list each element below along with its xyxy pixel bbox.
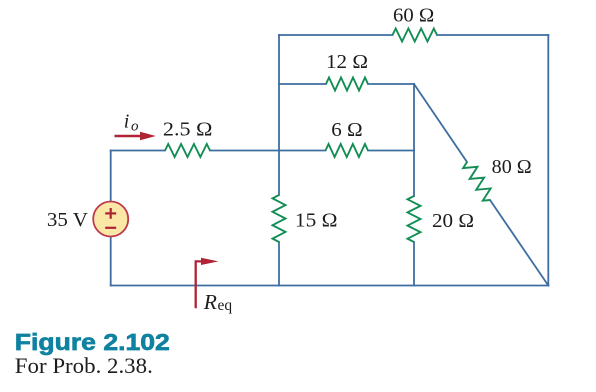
wire right rail <box>547 35 549 286</box>
svg-text:6 Ω: 6 Ω <box>331 119 362 141</box>
svg-text:i: i <box>124 111 130 133</box>
wire top branch left segment <box>279 34 393 36</box>
resistor 80 ohm <box>463 162 491 201</box>
wire middle branch right segment <box>368 150 414 152</box>
resistor 12 ohm <box>326 78 368 91</box>
svg-text:eq: eq <box>218 297 233 314</box>
wire diagonal upper segment <box>414 84 467 162</box>
wire left inner rail upper <box>278 35 280 195</box>
svg-text:15 Ω: 15 Ω <box>295 210 338 232</box>
resistor 15 ohm <box>273 195 286 242</box>
svg-text:80 Ω: 80 Ω <box>492 156 532 178</box>
wire source top lead <box>110 151 112 202</box>
source plus sign <box>105 208 116 219</box>
svg-text:20 Ω: 20 Ω <box>432 210 474 232</box>
svg-text:2.5 Ω: 2.5 Ω <box>163 118 213 140</box>
svg-text:Figure 2.102: Figure 2.102 <box>15 329 170 355</box>
current arrow i_o <box>115 132 156 140</box>
wire bottom branch <box>111 285 549 287</box>
voltage source 35V circle <box>93 202 128 237</box>
R_eq arrow <box>196 258 219 309</box>
wire diagonal lower segment <box>490 200 548 286</box>
svg-text:12 Ω: 12 Ω <box>326 51 368 73</box>
wire source bottom lead <box>110 237 112 286</box>
svg-text:For Prob. 2.38.: For Prob. 2.38. <box>15 353 153 378</box>
svg-text:35 V: 35 V <box>47 209 89 231</box>
svg-text:o: o <box>131 118 139 134</box>
resistor 2.5 ohm <box>165 144 210 157</box>
wire 12-ohm branch right segment <box>368 83 414 85</box>
svg-text:R: R <box>203 290 217 314</box>
wire 20-ohm rail lower <box>413 242 415 286</box>
resistor 60 ohm <box>393 29 438 42</box>
wire 20-ohm rail upper <box>413 84 415 196</box>
wire 12-ohm branch left segment <box>279 83 326 85</box>
resistor 20 ohm <box>408 196 421 242</box>
resistor 6 ohm <box>326 144 369 157</box>
wire left inner rail lower <box>278 242 280 286</box>
source minus sign <box>105 227 116 229</box>
wire middle branch center segment <box>210 150 326 152</box>
svg-text:60 Ω: 60 Ω <box>393 5 434 27</box>
wire top branch right segment <box>437 34 548 36</box>
wire middle branch left segment <box>111 150 165 152</box>
